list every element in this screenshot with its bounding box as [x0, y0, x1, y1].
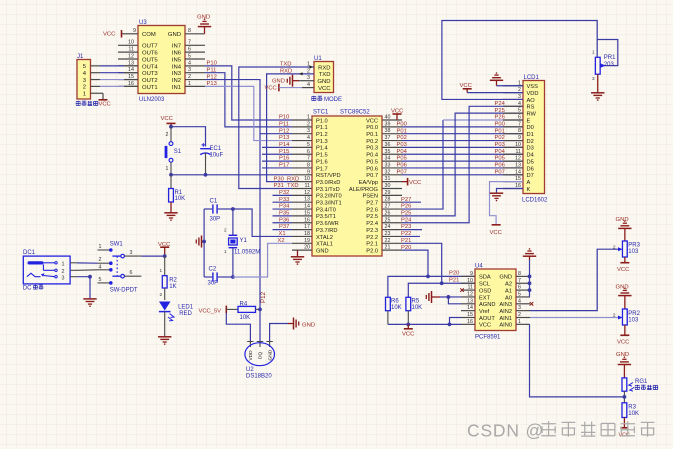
svg-text:12: 12	[515, 156, 521, 162]
svg-text:27: 27	[385, 204, 391, 210]
svg-text:AO: AO	[527, 98, 536, 104]
resistor R1 10K	[169, 175, 186, 213]
svg-text:DS18B20: DS18B20	[246, 373, 272, 379]
svg-text:CSDN @: CSDN @	[467, 421, 544, 441]
svg-text:2: 2	[166, 132, 169, 138]
svg-text:RXD: RXD	[287, 176, 299, 182]
svg-text:SCL: SCL	[479, 282, 490, 288]
svg-text:P2.6: P2.6	[366, 207, 378, 213]
svg-text:VCC: VCC	[103, 31, 116, 37]
LED LED1 RED	[159, 302, 194, 337]
svg-text:VCC: VCC	[265, 86, 277, 92]
svg-text:OUT7: OUT7	[142, 44, 158, 50]
svg-text:P31: P31	[274, 183, 284, 189]
switch S1 pushbutton	[165, 127, 182, 175]
wire C1/C2 left common	[203, 209, 205, 277]
svg-text:PR2: PR2	[628, 311, 640, 317]
svg-text:Y1: Y1	[240, 238, 248, 244]
svg-text:19: 19	[304, 238, 310, 244]
ground above PR2	[616, 284, 632, 309]
svg-text:1: 1	[159, 268, 162, 273]
svg-text:VCC: VCC	[409, 180, 421, 186]
svg-text:COM: COM	[142, 32, 156, 38]
svg-text:IN5: IN5	[172, 57, 182, 63]
label bluetooth MODE (Chinese) under U1	[311, 96, 342, 103]
svg-text:P3.7/RD: P3.7/RD	[316, 228, 338, 234]
svg-text:STC89C52: STC89C52	[340, 109, 370, 115]
svg-text:P2.3: P2.3	[366, 228, 378, 234]
resistor R3 10K	[622, 403, 639, 418]
power VCC below R3	[619, 418, 630, 439]
svg-text:10: 10	[128, 40, 134, 46]
svg-text:P26: P26	[495, 115, 505, 121]
svg-text:RXD: RXD	[318, 65, 330, 71]
svg-text:P11: P11	[279, 121, 289, 127]
svg-text:16: 16	[304, 217, 310, 223]
svg-text:P1.0: P1.0	[316, 118, 328, 124]
wire SW1.3 to VCC node	[141, 255, 164, 257]
svg-text:LED1: LED1	[178, 305, 194, 311]
svg-text:U3: U3	[139, 20, 147, 26]
svg-text:P12: P12	[260, 291, 267, 303]
svg-text:P3.5/T1: P3.5/T1	[316, 214, 336, 220]
power VCC above R2	[158, 242, 171, 256]
svg-text:8: 8	[518, 128, 521, 134]
svg-text:R1: R1	[175, 190, 183, 196]
wire P21: MCU pin 22 to U4 SCL and R5	[402, 243, 475, 283]
svg-text:11: 11	[468, 285, 474, 291]
svg-text:P13: P13	[279, 135, 289, 141]
watermark CSDN @ (Chinese)	[467, 421, 654, 441]
svg-text:IN3: IN3	[172, 71, 182, 77]
svg-text:C2: C2	[209, 266, 217, 272]
resistor R2 1K	[159, 256, 177, 300]
svg-text:PR3: PR3	[628, 243, 640, 249]
svg-text:1K: 1K	[169, 284, 176, 290]
svg-text:OUT3: OUT3	[142, 71, 158, 77]
wire P22 stub	[402, 235, 420, 237]
svg-text:6: 6	[188, 47, 191, 53]
svg-text:31: 31	[385, 176, 391, 182]
ic U3 ULN2003 darlington driver	[118, 20, 205, 103]
svg-text:XTAL2: XTAL2	[316, 235, 333, 241]
svg-text:D3: D3	[527, 146, 534, 152]
svg-text:VCC: VCC	[402, 331, 415, 337]
connector J1	[77, 54, 91, 99]
svg-text:OSD: OSD	[479, 288, 491, 294]
svg-text:32: 32	[385, 169, 391, 175]
svg-text:4: 4	[188, 60, 191, 66]
svg-text:R6: R6	[391, 299, 399, 305]
svg-text:P0.0: P0.0	[366, 125, 378, 131]
wire X2: crystal bottom to MCU XTAL1	[233, 243, 292, 277]
svg-text:10K: 10K	[175, 196, 186, 202]
wire P00: MCU to LCD D0	[402, 126, 523, 128]
svg-text:LCD1: LCD1	[524, 75, 540, 81]
svg-text:P24: P24	[495, 101, 506, 107]
wire LCD K to ground	[497, 189, 524, 194]
ground below PR1	[591, 74, 604, 101]
svg-text:29: 29	[385, 190, 391, 196]
power VCC at U1 VCC pin	[265, 84, 315, 92]
svg-text:36: 36	[385, 142, 391, 148]
svg-text:16: 16	[467, 319, 473, 325]
svg-text:RST/VPD: RST/VPD	[316, 173, 341, 179]
svg-text:12: 12	[304, 190, 310, 196]
wire P14 stub	[262, 146, 292, 148]
svg-text:10K: 10K	[240, 315, 251, 321]
svg-text:7: 7	[188, 40, 191, 46]
wire DC1.3 down to ground	[77, 277, 90, 299]
wire P15 stub	[262, 153, 292, 155]
ground bars at U4 EXT/AGND	[426, 291, 461, 304]
svg-text:12: 12	[128, 53, 134, 59]
wire TXD: U1 RXD to MCU P3.1	[239, 67, 314, 189]
svg-text:2: 2	[613, 244, 616, 250]
svg-text:RW: RW	[527, 111, 537, 117]
power VCC at J1 pin 1	[91, 93, 108, 100]
resistor R5 10K pull-up on SCL	[406, 297, 422, 324]
svg-text:2: 2	[518, 312, 521, 318]
svg-text:2: 2	[307, 121, 310, 127]
ground above PR3	[616, 217, 632, 241]
svg-text:11.0592M: 11.0592M	[234, 250, 260, 256]
svg-text:103: 103	[628, 317, 639, 323]
svg-text:20: 20	[304, 245, 310, 251]
svg-text:GND: GND	[616, 352, 629, 358]
wire P32 stub	[273, 194, 293, 196]
svg-text:IN1: IN1	[172, 85, 181, 91]
svg-text:P0.1: P0.1	[366, 132, 378, 138]
svg-text:22: 22	[385, 238, 391, 244]
svg-text:5: 5	[518, 291, 521, 297]
wire P36 stub	[273, 222, 293, 224]
svg-text:P3.3/INT1: P3.3/INT1	[316, 201, 342, 207]
svg-text:11: 11	[516, 149, 522, 155]
wire P04: MCU to LCD D4	[402, 153, 523, 155]
ground bars left of crystal caps	[196, 236, 204, 248]
power VCC above S1	[161, 116, 176, 127]
wire P20 branch to R6	[388, 276, 428, 297]
connector DC1 power jack	[23, 250, 77, 284]
svg-text:P3.1/TxD: P3.1/TxD	[316, 187, 340, 193]
svg-text:5: 5	[99, 277, 102, 283]
svg-text:P2.7: P2.7	[366, 201, 378, 207]
svg-text:P2.2: P2.2	[366, 235, 378, 241]
wire U4 AIN2 to PR3 wiper	[530, 249, 620, 310]
power VCC bar at MCU EA/Vpp pin 31	[402, 178, 421, 186]
svg-text:P0.7: P0.7	[366, 173, 378, 179]
svg-text:SDA: SDA	[479, 275, 491, 281]
svg-text:17: 17	[304, 224, 310, 230]
svg-text:15: 15	[467, 312, 473, 318]
svg-text:14: 14	[515, 169, 521, 175]
svg-text:P3.4/T0: P3.4/T0	[316, 207, 336, 213]
wire J1.2 to U3 OUT1	[100, 85, 124, 87]
wire DS18B20 GND pin to ground bars	[270, 324, 288, 342]
svg-text:5: 5	[307, 142, 310, 148]
svg-text:4: 4	[99, 264, 102, 270]
svg-text:IN7: IN7	[172, 44, 181, 50]
svg-text:EC1: EC1	[210, 146, 222, 152]
svg-text:R4: R4	[240, 301, 248, 307]
svg-text:P2.5: P2.5	[366, 214, 378, 220]
svg-text:6: 6	[518, 115, 521, 121]
svg-text:8: 8	[188, 28, 191, 34]
ground above RG1	[616, 352, 631, 378]
svg-text:1: 1	[592, 50, 595, 55]
capacitor C1 30P	[204, 198, 233, 222]
svg-text:40: 40	[385, 115, 391, 121]
ground below LED1	[158, 336, 171, 338]
svg-text:GND: GND	[616, 284, 629, 290]
svg-text:ALE/PROG: ALE/PROG	[349, 187, 378, 193]
svg-text:STC1: STC1	[313, 109, 329, 115]
svg-text:4: 4	[518, 298, 521, 304]
svg-text:7: 7	[307, 156, 310, 162]
resistor R4 10K	[226, 301, 260, 321]
svg-text:P1.7: P1.7	[316, 166, 328, 172]
svg-text:SW-DPDT: SW-DPDT	[110, 288, 138, 294]
svg-text:P3.0/RxD: P3.0/RxD	[316, 180, 340, 186]
ground below DC1.3	[83, 298, 96, 300]
svg-text:RXD: RXD	[280, 68, 292, 74]
wire P23 stub	[402, 229, 422, 231]
wire VCC node to S1 and EC1 top	[171, 127, 206, 147]
svg-text:P1.5: P1.5	[316, 153, 328, 159]
wire P17 stub	[262, 167, 292, 169]
svg-text:2: 2	[62, 269, 65, 275]
svg-text:28: 28	[385, 197, 391, 203]
svg-text:D0: D0	[527, 125, 534, 131]
potentiometer PR3 103	[613, 241, 641, 257]
wire U4 AIN0 down and right to RG1/R3 node	[530, 324, 625, 397]
svg-text:8: 8	[307, 162, 310, 168]
svg-text:103: 103	[628, 249, 639, 255]
svg-text:VDD: VDD	[527, 91, 539, 97]
svg-text:S1: S1	[174, 149, 182, 155]
svg-text:1: 1	[307, 115, 310, 121]
svg-text:1: 1	[224, 249, 227, 254]
svg-text:10K: 10K	[391, 305, 402, 311]
svg-text:203: 203	[604, 62, 615, 68]
svg-text:P10: P10	[279, 115, 289, 121]
svg-text:DC1: DC1	[23, 250, 36, 256]
svg-text:VCC: VCC	[161, 116, 174, 122]
svg-text:10K: 10K	[628, 411, 639, 417]
svg-text:10uF: 10uF	[210, 152, 224, 158]
svg-text:P0.3: P0.3	[366, 146, 378, 152]
svg-text:12: 12	[467, 291, 473, 297]
svg-text:8: 8	[518, 271, 521, 277]
ground above U4 right (GND/A2/A1/A0)	[523, 248, 536, 297]
svg-text:P30: P30	[274, 176, 284, 182]
svg-text:VSS: VSS	[527, 84, 539, 90]
svg-text:GND: GND	[272, 79, 285, 85]
wire P26: MCU pin 27 to LCD E	[402, 120, 443, 209]
svg-text:A0: A0	[505, 295, 512, 301]
svg-text:1: 1	[99, 244, 102, 250]
ground below R1	[164, 212, 177, 214]
crystal Y1 11.0592M	[224, 209, 260, 277]
wire P12 branch to MCU P1.2	[260, 133, 292, 135]
wire P06: MCU to LCD D6	[402, 167, 523, 169]
svg-text:13: 13	[515, 162, 521, 168]
svg-text:GND: GND	[302, 322, 315, 328]
svg-text:P2.1: P2.1	[366, 242, 378, 248]
svg-text:OUT2: OUT2	[142, 78, 158, 84]
svg-text:D4: D4	[527, 153, 534, 159]
svg-text:OUT1: OUT1	[142, 85, 158, 91]
switch SW1 SW-DPDT	[98, 241, 142, 293]
svg-text:GND: GND	[499, 275, 512, 281]
svg-text:P21: P21	[449, 277, 459, 283]
svg-text:10: 10	[304, 176, 310, 182]
svg-text:4: 4	[518, 101, 521, 107]
svg-text:VCC: VCC	[366, 118, 378, 124]
svg-text:GND: GND	[268, 349, 274, 360]
svg-text:P25: P25	[495, 108, 505, 114]
svg-text:1: 1	[83, 92, 86, 98]
power VCC below LCD A wire	[490, 225, 503, 236]
svg-text:P1.1: P1.1	[316, 125, 328, 131]
svg-text:24: 24	[385, 224, 391, 230]
wire P13: U3 IN1 to MCU P1.3	[205, 86, 292, 140]
svg-text:D6: D6	[527, 166, 534, 172]
svg-text:OUT5: OUT5	[142, 57, 158, 63]
svg-text:P1.6: P1.6	[316, 159, 328, 165]
wire P02: MCU to LCD D2	[402, 140, 523, 142]
svg-text:9: 9	[518, 135, 521, 141]
svg-text:P1.3: P1.3	[316, 139, 328, 145]
svg-text:P1.4: P1.4	[316, 146, 328, 152]
svg-text:VCC_5V: VCC_5V	[199, 308, 222, 314]
wire P03: MCU to LCD D3	[402, 146, 523, 148]
svg-text:2: 2	[224, 228, 227, 233]
svg-text:2: 2	[159, 292, 162, 297]
svg-text:13: 13	[304, 197, 310, 203]
ground above LCD VSS	[490, 72, 523, 86]
power VCC below PR2	[617, 325, 630, 345]
svg-text:GND: GND	[317, 79, 330, 85]
svg-text:EA/Vpp: EA/Vpp	[359, 180, 378, 186]
svg-text:P12: P12	[279, 128, 289, 134]
wire DQ down into DS18B20	[259, 309, 261, 341]
wire J1.4 to U3 OUT3	[100, 72, 124, 74]
no-connect cross at U4 OSD pin 11	[460, 288, 464, 292]
svg-text:D1: D1	[527, 132, 534, 138]
svg-text:14: 14	[304, 204, 310, 210]
svg-text:PSEN: PSEN	[363, 194, 379, 200]
svg-text:OUT4: OUT4	[142, 64, 158, 70]
wire P16 stub	[262, 160, 292, 162]
svg-text:TXD: TXD	[287, 183, 299, 189]
svg-text:TXD: TXD	[280, 61, 292, 67]
svg-text:25: 25	[385, 217, 391, 223]
wire P07: MCU to LCD D7	[402, 174, 523, 176]
potentiometer PR2 103	[613, 309, 641, 325]
wire P25: MCU pin 26 to LCD RW	[402, 113, 523, 216]
svg-text:10K: 10K	[412, 305, 423, 311]
power VCC at MCU pin 40	[391, 108, 404, 120]
svg-text:PR1: PR1	[604, 55, 616, 61]
svg-text:P0.5: P0.5	[366, 159, 378, 165]
svg-text:P0.6: P0.6	[366, 166, 378, 172]
module U1 bluetooth	[307, 56, 334, 92]
wire P24: MCU pin 25 to LCD RS	[402, 106, 523, 222]
photoresistor RG1	[622, 378, 658, 403]
svg-text:AIN1: AIN1	[499, 316, 512, 322]
svg-text:6: 6	[307, 149, 310, 155]
wire PR1 wiper loop	[597, 40, 618, 66]
svg-text:R5: R5	[412, 299, 420, 305]
svg-text:VCC: VCC	[318, 86, 331, 92]
wire P34 stub	[273, 208, 293, 210]
svg-text:GND: GND	[168, 32, 181, 38]
svg-text:DQ: DQ	[258, 352, 264, 359]
svg-text:VCC: VCC	[479, 323, 491, 329]
capacitor EC1 10uF electrolytic	[200, 143, 223, 175]
svg-text:3: 3	[130, 250, 133, 256]
svg-text:U4: U4	[475, 264, 483, 270]
wire P37 stub	[273, 229, 293, 231]
svg-text:P2.0: P2.0	[366, 248, 378, 254]
wire X1: crystal top to MCU XTAL2	[233, 209, 292, 236]
svg-text:P0.2: P0.2	[366, 139, 378, 145]
svg-text:7: 7	[518, 278, 521, 284]
ground GND above U3 pin 8	[197, 15, 211, 34]
svg-text:LCD1602: LCD1602	[522, 198, 548, 204]
svg-text:A: A	[527, 180, 531, 186]
svg-text:AIN0: AIN0	[499, 323, 512, 329]
svg-text:D2: D2	[527, 139, 534, 145]
svg-text:IN2: IN2	[172, 78, 181, 84]
svg-text:RS: RS	[527, 105, 535, 111]
svg-text:P1.2: P1.2	[316, 132, 328, 138]
wire DC1.2 to SW1.4	[77, 269, 98, 272]
svg-text:P3.6/WR: P3.6/WR	[316, 221, 339, 227]
svg-text:38: 38	[385, 128, 391, 134]
wire P05: MCU to LCD D5	[402, 160, 523, 162]
svg-text:RED: RED	[179, 311, 192, 317]
ground bars right of DS18B20	[288, 318, 315, 330]
svg-text:2: 2	[188, 74, 191, 80]
svg-text:AOUT: AOUT	[479, 316, 495, 322]
wire LCD AO to PR1 wiper loop	[442, 21, 597, 100]
svg-text:K: K	[527, 187, 531, 193]
svg-text:11: 11	[128, 47, 134, 53]
svg-text:EXT: EXT	[479, 295, 491, 301]
wire P33 stub	[273, 201, 293, 203]
display LCD1 LCD1602	[503, 75, 548, 204]
svg-text:2: 2	[613, 313, 616, 319]
svg-text:OUT6: OUT6	[142, 51, 158, 57]
svg-text:D7: D7	[527, 173, 534, 179]
svg-text:23: 23	[385, 231, 391, 237]
svg-text:10: 10	[515, 142, 521, 148]
svg-text:AGND: AGND	[479, 302, 495, 308]
wire U4 AIN1 to PR2 wiper	[530, 317, 620, 319]
ground below LCD K	[490, 192, 503, 194]
svg-text:R2: R2	[169, 278, 177, 284]
svg-text:7: 7	[518, 121, 521, 127]
svg-text:30: 30	[385, 183, 391, 189]
wire P01: MCU to LCD D1	[402, 133, 523, 135]
svg-text:IN6: IN6	[172, 51, 182, 57]
svg-text:14: 14	[467, 305, 473, 311]
svg-text:6: 6	[130, 270, 133, 276]
svg-text:3: 3	[62, 276, 65, 282]
